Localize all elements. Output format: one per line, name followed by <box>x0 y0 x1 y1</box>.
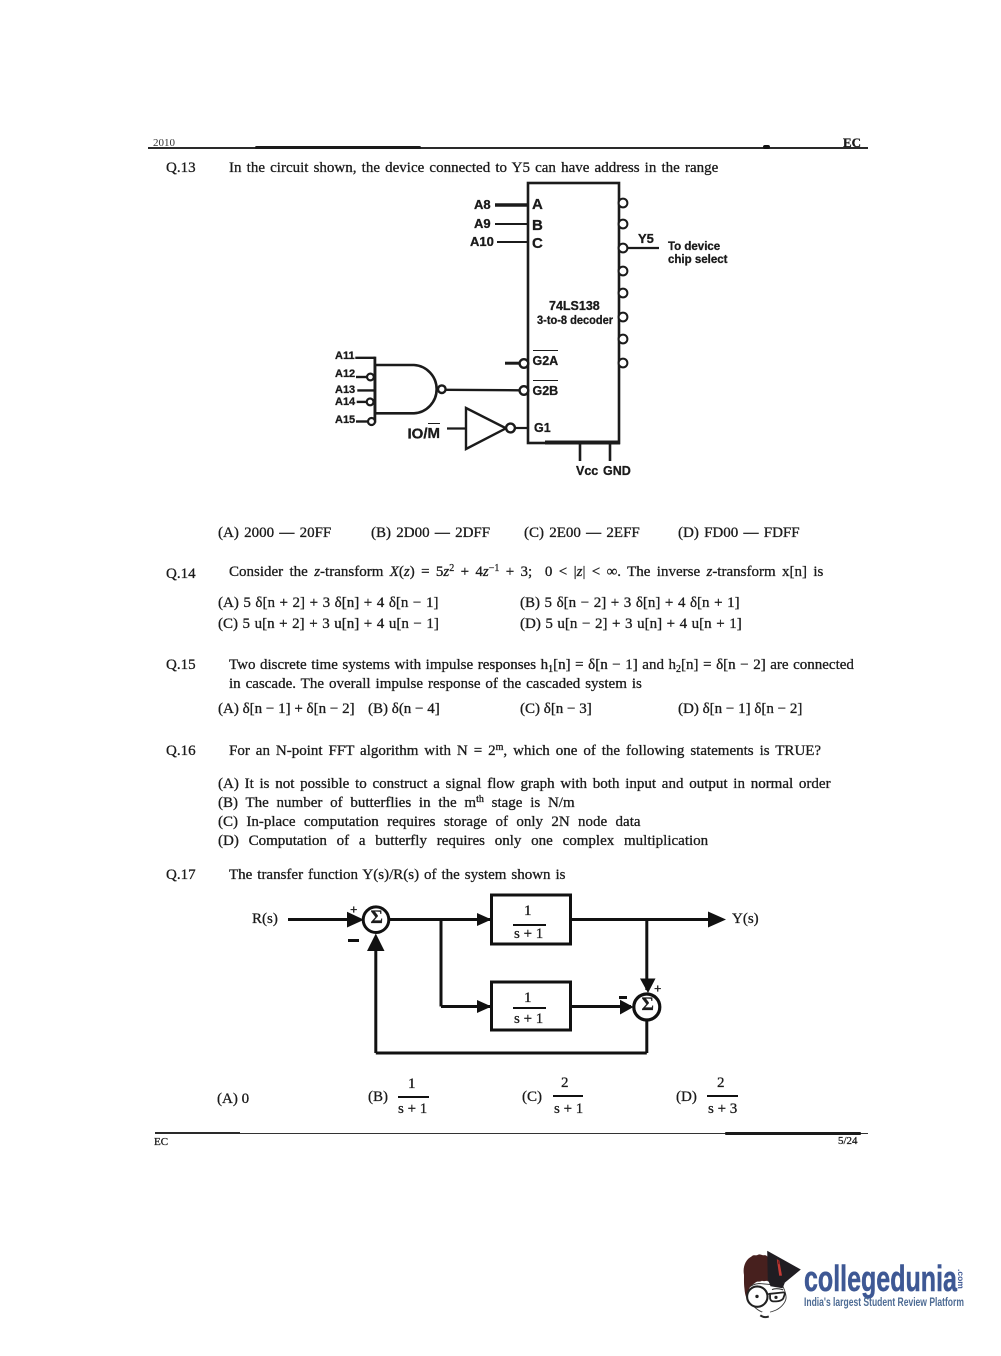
Q.16 option C <box>218 815 641 830</box>
cap skirt <box>769 1281 786 1288</box>
wire A15 <box>356 420 368 422</box>
pin label G2B <box>533 380 559 398</box>
tassel <box>777 1259 782 1276</box>
arrowhead into S2 top <box>640 979 656 994</box>
branch down to summer S2 <box>645 920 648 991</box>
circuit label IO/M <box>408 423 441 442</box>
header rule thick segment <box>255 146 421 149</box>
header rule ink dot <box>763 145 770 149</box>
Q.15 question line 2 <box>229 677 642 692</box>
glasses right lens <box>770 1292 785 1301</box>
Q.13 number <box>166 161 196 176</box>
pin Y0 bubble <box>619 199 628 208</box>
Q.17 option B fraction bar <box>398 1096 429 1098</box>
Q.17 option B denominator <box>398 1102 427 1117</box>
Q.17 option C denominator <box>554 1102 583 1117</box>
wire A11 <box>355 357 375 359</box>
footer page number 5/24 <box>838 1136 858 1147</box>
wire inverter to G1 <box>515 427 528 429</box>
logo mascot face <box>735 1240 815 1330</box>
circuit label A13 <box>335 385 355 396</box>
logo tagline <box>804 1298 964 1310</box>
arrowhead into S1 bottom <box>367 934 385 952</box>
circuit label A9 <box>474 217 491 230</box>
collegedunia logo group <box>735 1240 980 1335</box>
wire A8 <box>495 203 528 206</box>
node label Y(s) <box>732 912 759 927</box>
node R(s) input wire <box>288 918 360 921</box>
header EC label <box>843 136 861 149</box>
pin G2B bubble <box>520 386 529 395</box>
pin Y bubble 7 <box>619 335 628 344</box>
annotation To device chip select <box>668 241 727 266</box>
wire Vcc stub <box>579 443 582 461</box>
circuit label A11 <box>335 351 355 362</box>
block G2 numerator <box>524 991 532 1006</box>
Q.16 number <box>166 744 196 759</box>
wire IO/M to inverter <box>447 427 466 429</box>
pin label B <box>532 218 543 233</box>
node label R(s) <box>252 912 278 927</box>
arrowhead at Y(s) <box>708 912 726 928</box>
wire A13 <box>357 389 375 391</box>
feedback wire S2 down <box>645 1020 648 1054</box>
circuit label A14 <box>335 397 355 408</box>
Q.16 option B <box>218 796 575 811</box>
footer rule <box>155 1133 868 1134</box>
label 74LS138 <box>549 300 600 313</box>
face <box>748 1284 786 1313</box>
wire bottom block to S2 <box>571 1005 632 1008</box>
circuit label Y5 <box>638 232 654 245</box>
circuit label A8 <box>474 198 491 211</box>
Q.13 option C <box>524 526 640 541</box>
glasses left lens <box>747 1286 767 1306</box>
arrowhead into summer S1 <box>347 912 364 928</box>
input bubble A15 <box>368 418 375 425</box>
header rule <box>148 147 868 149</box>
Q.17 option D label <box>676 1090 697 1105</box>
summing junction S1 <box>363 907 389 933</box>
Q.14 question text <box>229 565 823 580</box>
Q.17 option C fraction bar <box>553 1095 583 1097</box>
Q.14 option D <box>520 617 742 632</box>
Q.14 option A <box>218 596 438 611</box>
summer S2 sigma <box>642 995 654 1014</box>
eyebrow <box>772 1289 783 1290</box>
Q.17 question text <box>229 868 565 883</box>
Q.14 option B <box>520 596 740 611</box>
Q.17 option C numerator <box>561 1076 569 1091</box>
Q.13 option B <box>371 526 490 541</box>
wire A10 <box>497 241 528 243</box>
Q.13 option A <box>218 526 331 541</box>
power label Vcc <box>576 465 598 478</box>
pin Y1 bubble <box>619 220 628 229</box>
ground label GND <box>603 465 631 478</box>
pin Y bubble 6 <box>619 313 628 322</box>
hair <box>744 1254 770 1304</box>
block G1 denominator <box>514 927 543 942</box>
block G1 1/(s+1) <box>492 895 571 944</box>
summer S1 sigma <box>371 908 383 927</box>
pin Y bubble 8 <box>619 359 628 368</box>
sign minus at S1 <box>348 939 359 942</box>
block G2 denominator <box>514 1012 543 1027</box>
logo .com vertical <box>956 1269 966 1289</box>
Q.14 number <box>166 567 196 582</box>
sign plus at S2 <box>654 982 661 995</box>
Q.14 option C <box>218 617 439 632</box>
feedback wire bottom run <box>376 1052 647 1055</box>
sign minus at S2 <box>619 996 627 999</box>
logo wordmark collegedunia <box>804 1261 957 1297</box>
wire GND stub <box>609 443 612 461</box>
Q.15 number <box>166 658 196 673</box>
wire S1 to top block <box>388 918 492 921</box>
pin Y5 bubble <box>619 244 628 253</box>
wire A14 <box>357 401 367 403</box>
pin Y bubble 5 <box>619 289 628 298</box>
arrowhead into top block <box>477 913 492 926</box>
Q.13 option D <box>678 526 800 541</box>
Q.17 option D fraction bar <box>707 1095 738 1097</box>
input bubble A14 <box>367 399 374 406</box>
pin label A <box>532 197 543 212</box>
inverter output bubble <box>506 424 515 433</box>
block G1 fraction bar <box>513 924 546 926</box>
chin <box>762 1311 770 1317</box>
sign plus at S1 <box>350 903 357 916</box>
block G2 fraction bar <box>513 1007 546 1009</box>
IC bottom edge thick segment <box>545 441 620 445</box>
wire G2A stub <box>505 362 519 365</box>
pin label G1 <box>534 422 551 435</box>
NAND output bubble <box>438 385 446 393</box>
input bubble A12 <box>367 374 374 381</box>
block G2 1/(s+1) <box>492 982 571 1030</box>
pin G2A bubble <box>520 359 529 368</box>
inverter U3 triangle <box>466 408 506 449</box>
wire NAND output to G2B <box>446 389 519 392</box>
wire branch to bottom block <box>441 1005 492 1008</box>
footer rule segment left <box>155 1132 240 1134</box>
Q.16 question text <box>229 744 821 759</box>
feedback wire left rise <box>374 949 377 1053</box>
pin Y bubble 4 <box>619 267 628 276</box>
footer rule thick segment right <box>725 1132 861 1135</box>
label 3-to-8 decoder <box>537 314 613 326</box>
NAND input bus vertical wire <box>373 357 376 423</box>
pin label G2A <box>533 350 559 368</box>
Q.16 option A <box>218 777 831 792</box>
Q.15 question line 1 <box>229 658 854 673</box>
right pupil <box>774 1296 777 1299</box>
wire Y5 to device chip select <box>628 247 659 249</box>
Q.17 number <box>166 868 196 883</box>
Q.17 option D denominator <box>708 1102 737 1117</box>
Q.17 option B label <box>368 1090 388 1105</box>
arrowhead into S2 left <box>620 1000 634 1015</box>
circuit label A12 <box>335 369 355 380</box>
pin label C <box>532 236 543 251</box>
Q.17 option B numerator <box>408 1077 416 1092</box>
cap board <box>767 1251 801 1283</box>
Q.15 option D <box>678 702 802 717</box>
wire A12 <box>356 376 367 378</box>
circuit label A15 <box>335 415 355 426</box>
summing junction S2 <box>634 994 660 1020</box>
arrowhead into bottom block <box>477 1000 492 1013</box>
Q.17 option D numerator <box>717 1076 725 1091</box>
glasses bridge <box>767 1293 770 1296</box>
IC U1 74LS138 body <box>528 183 619 443</box>
Q.15 option A <box>218 702 355 717</box>
circuit label A10 <box>470 235 494 248</box>
NAND gate U2 body <box>375 365 437 413</box>
Q.15 option C <box>520 702 592 717</box>
Q.13 question text <box>229 161 718 176</box>
wire top block to Y(s) <box>571 918 723 921</box>
Q.15 option B <box>368 702 440 717</box>
Q.17 option C label <box>522 1090 542 1105</box>
Q.16 option D <box>218 834 708 849</box>
Q.17 option A <box>217 1092 249 1107</box>
left pupil <box>755 1295 758 1298</box>
branch node after S1 <box>440 920 443 1007</box>
header year label <box>153 138 175 149</box>
footer EC label <box>154 1137 168 1148</box>
mouth <box>760 1315 769 1317</box>
block G1 numerator <box>524 904 532 919</box>
wire A9 <box>495 223 528 225</box>
